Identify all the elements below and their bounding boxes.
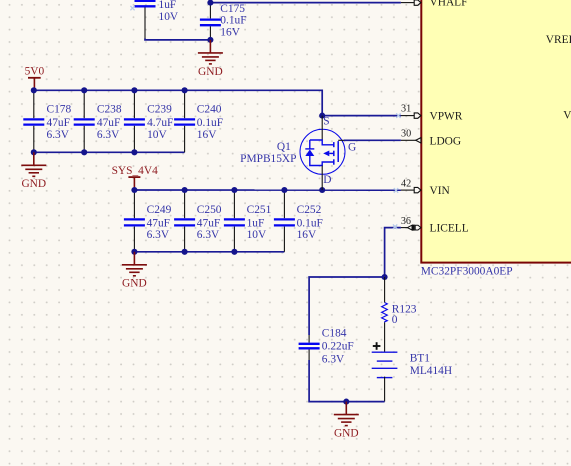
svg-text:47uF: 47uF xyxy=(47,117,70,129)
svg-text:10V: 10V xyxy=(147,129,167,141)
svg-text:VIN: VIN xyxy=(430,185,450,197)
svg-text:16V: 16V xyxy=(220,26,240,38)
wire 5V0 top rail xyxy=(34,90,322,115)
svg-text:VREFDDR: VREFDDR xyxy=(546,34,571,46)
pin VSNVS (right, clipped) xyxy=(563,110,571,122)
battery BT1 ML414H xyxy=(372,342,452,401)
svg-text:MC32PF3000A0EP: MC32PF3000A0EP xyxy=(421,265,513,277)
ground (battery) xyxy=(334,402,359,440)
power port 5V0 xyxy=(25,65,45,90)
wire VPWR net (S junction to pin 31) xyxy=(322,115,401,117)
svg-text:LICELL: LICELL xyxy=(430,223,469,235)
node: C175 bottom junction xyxy=(207,37,213,43)
svg-text:GND: GND xyxy=(334,428,359,440)
svg-text:S: S xyxy=(323,116,329,128)
svg-text:C178: C178 xyxy=(47,104,72,116)
node: SYS_4V4 rail junctions xyxy=(131,187,325,193)
power port SYS_4V4 xyxy=(112,165,159,190)
wire VHALF net xyxy=(210,2,401,4)
IC U1 MC32PF3000A0EP block xyxy=(421,0,571,277)
svg-text:16V: 16V xyxy=(197,129,217,141)
svg-text:0.1uF: 0.1uF xyxy=(197,117,223,129)
node: Q1 source junction xyxy=(319,113,325,119)
svg-text:D: D xyxy=(323,174,331,186)
transistor Q1 PMPB15XP xyxy=(240,116,356,190)
resistor R123 xyxy=(382,277,417,326)
svg-text:31: 31 xyxy=(401,103,411,114)
wire C184 to bottom rail xyxy=(309,360,385,402)
node: C175 top junction xyxy=(207,0,213,6)
svg-text:0: 0 xyxy=(392,314,398,326)
ground (bank1) xyxy=(21,152,46,190)
capacitor C238 xyxy=(74,90,122,152)
svg-text:36: 36 xyxy=(401,216,411,227)
svg-text:C184: C184 xyxy=(322,328,347,340)
svg-text:VHALF: VHALF xyxy=(430,0,468,9)
svg-text:10V: 10V xyxy=(247,229,267,241)
svg-text:G: G xyxy=(348,142,356,154)
svg-text:4.7uF: 4.7uF xyxy=(147,117,173,129)
svg-text:PMPB15XP: PMPB15XP xyxy=(240,153,296,165)
svg-text:C251: C251 xyxy=(247,204,272,216)
svg-text:0.22uF: 0.22uF xyxy=(322,341,354,353)
svg-text:ML414H: ML414H xyxy=(410,365,452,377)
capacitor C175 xyxy=(200,3,247,40)
svg-text:C175: C175 xyxy=(220,3,245,15)
ground (top, under C175) xyxy=(198,40,223,78)
svg-text:10V: 10V xyxy=(159,11,179,23)
svg-text:0.1uF: 0.1uF xyxy=(297,217,323,229)
node: LICELL junction xyxy=(382,274,388,280)
svg-text:C249: C249 xyxy=(147,204,172,216)
capacitor C251 xyxy=(224,190,272,252)
svg-text:6.3V: 6.3V xyxy=(47,129,70,141)
svg-text:C240: C240 xyxy=(197,104,222,116)
svg-text:GND: GND xyxy=(198,66,223,78)
ground (bank2) xyxy=(122,252,147,290)
capacitor C178 xyxy=(23,90,71,152)
svg-text:6.3V: 6.3V xyxy=(197,229,220,241)
svg-text:BT1: BT1 xyxy=(410,353,431,365)
svg-text:VSNVS: VSNVS xyxy=(563,110,571,122)
svg-text:47uF: 47uF xyxy=(147,217,170,229)
svg-text:VPWR: VPWR xyxy=(430,111,463,123)
capacitor C174 (partial, 1uF 10V) xyxy=(135,0,179,38)
capacitor C249 xyxy=(124,190,172,252)
node: bank2 gnd rail junctions xyxy=(131,249,237,255)
svg-text:16V: 16V xyxy=(297,229,317,241)
capacitor C250 xyxy=(174,190,222,252)
svg-text:47uF: 47uF xyxy=(197,217,220,229)
wire partial-cap to C175 bottom node xyxy=(145,39,210,40)
svg-text:0.1uF: 0.1uF xyxy=(220,15,246,27)
svg-text:C238: C238 xyxy=(97,104,122,116)
svg-text:6.3V: 6.3V xyxy=(147,229,170,241)
svg-text:47uF: 47uF xyxy=(97,117,120,129)
svg-text:SYS_4V4: SYS_4V4 xyxy=(112,165,159,177)
pin 31 VPWR xyxy=(401,103,463,122)
node: bottom gnd junction xyxy=(343,399,349,405)
capacitor C252 xyxy=(274,190,323,252)
pin 42 VIN xyxy=(401,179,450,198)
svg-text:Q1: Q1 xyxy=(277,141,291,153)
wire LDOG net (gate to pin 30) xyxy=(344,139,401,141)
pin 30 LDOG xyxy=(401,129,461,148)
node: off-grid connection marks (light blue) xyxy=(130,6,400,229)
capacitor C239 xyxy=(124,90,173,152)
wire bank2 bottom rail xyxy=(134,251,284,253)
svg-text:GND: GND xyxy=(21,178,46,190)
wire junction to C184 branch xyxy=(309,277,385,335)
wire SYS_4V4 rail to pin 42 xyxy=(134,189,401,191)
node: 5V0 rail junctions xyxy=(31,87,188,93)
svg-text:C250: C250 xyxy=(197,204,222,216)
capacitor C184 xyxy=(299,328,354,366)
svg-text:GND: GND xyxy=(122,278,147,290)
svg-text:1uF: 1uF xyxy=(247,217,265,229)
wire 5V0 bottom rail xyxy=(34,151,185,153)
svg-text:30: 30 xyxy=(401,129,411,140)
svg-text:LDOG: LDOG xyxy=(430,135,462,147)
svg-text:42: 42 xyxy=(401,179,411,190)
svg-text:5V0: 5V0 xyxy=(25,65,45,77)
pin 36 LICELL xyxy=(401,216,469,235)
svg-text:6.3V: 6.3V xyxy=(97,129,120,141)
svg-text:C252: C252 xyxy=(297,204,322,216)
pin VREFDDR (right, clipped) xyxy=(546,34,571,46)
wire LICELL net xyxy=(385,228,401,277)
capacitor C240 xyxy=(174,90,223,152)
node: bank1 gnd rail junctions xyxy=(31,149,138,155)
pin VHALF xyxy=(401,0,468,9)
wire R123 to BT1 xyxy=(384,322,386,351)
svg-text:6.3V: 6.3V xyxy=(322,353,345,365)
svg-text:C239: C239 xyxy=(147,104,172,116)
svg-text:1uF: 1uF xyxy=(159,0,177,11)
